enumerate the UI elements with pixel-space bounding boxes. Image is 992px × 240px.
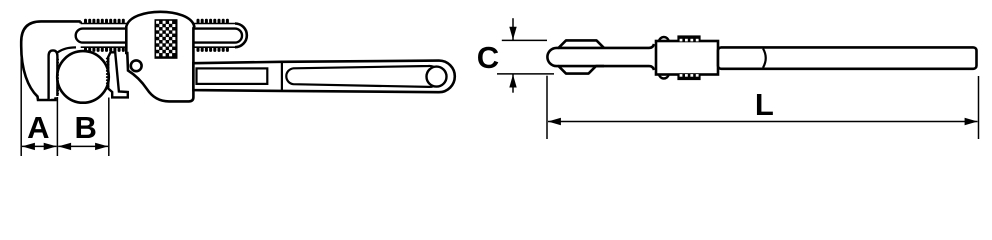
L dimension line xyxy=(548,121,978,123)
shank side slot xyxy=(76,29,242,43)
handle recess slot xyxy=(286,66,440,87)
gripped pipe circle xyxy=(57,51,109,103)
bottom knurl xyxy=(677,74,700,80)
L extension right xyxy=(978,76,980,139)
rack teeth top xyxy=(84,19,229,24)
top view shank lines to body xyxy=(604,44,654,70)
dimension line B xyxy=(58,145,108,147)
dim C tick top xyxy=(502,39,547,41)
hook jaw arm outline xyxy=(21,21,80,100)
hook arm inner curve xyxy=(57,47,76,52)
svg-text:B: B xyxy=(75,110,97,145)
adjustment housing body xyxy=(126,12,194,102)
shank right rounded cap xyxy=(235,24,247,48)
top pin semicircle xyxy=(659,37,669,41)
dim C vertical top xyxy=(512,18,514,40)
neck thin slot xyxy=(197,68,268,84)
top view handle xyxy=(718,47,977,68)
hook jaw shank rack bar outline xyxy=(81,24,235,48)
svg-text:A: A xyxy=(27,110,49,145)
handle outline xyxy=(193,61,454,93)
dim C tick bottom xyxy=(497,73,554,75)
hang hole xyxy=(427,67,447,87)
top knurl xyxy=(677,35,700,41)
dim C vertical bottom xyxy=(512,75,514,93)
handle joint line xyxy=(281,62,283,91)
heel jaw piece xyxy=(108,52,128,97)
L extension left xyxy=(546,76,548,139)
bottom pin semicircle xyxy=(659,74,669,78)
svg-text:L: L xyxy=(755,87,774,122)
pivot pin xyxy=(131,60,142,71)
rack teeth bottom xyxy=(84,47,229,52)
hook jaw face insert xyxy=(49,50,58,99)
hook jaw face serration xyxy=(56,59,59,95)
handle joint arc xyxy=(763,49,766,68)
dimension line A xyxy=(22,145,57,147)
knurled adjustment nut xyxy=(155,19,178,59)
top view body block xyxy=(656,41,718,75)
extension line A left xyxy=(20,46,22,156)
svg-text:C: C xyxy=(477,40,499,75)
extension line B right xyxy=(108,98,110,157)
nose bar core lines xyxy=(559,48,605,66)
heel jaw serration xyxy=(106,58,110,88)
top view nose bar with jaw bumps xyxy=(547,40,604,73)
extension line middle xyxy=(56,97,58,156)
